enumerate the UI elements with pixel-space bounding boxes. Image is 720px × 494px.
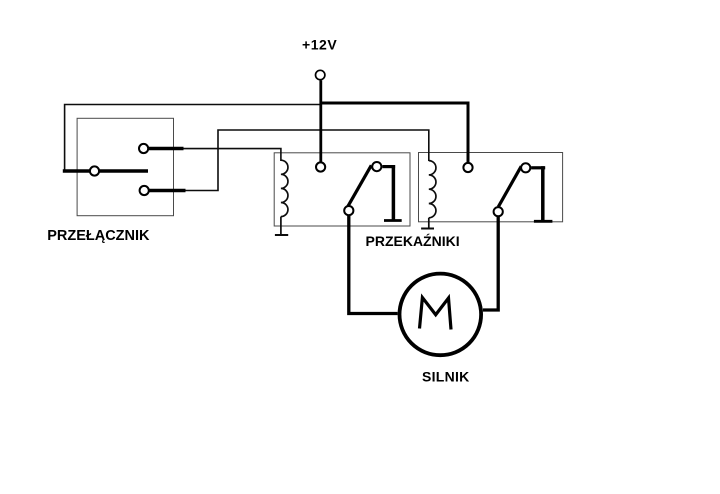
wire relay1 armature to motor — [349, 215, 398, 314]
wire coil L1 to ground — [280, 217, 282, 235]
relay1 armature pivot — [344, 206, 353, 215]
switch bottom terminal — [140, 186, 149, 195]
relay1 NC contact link — [382, 165, 395, 168]
ground under coil L2 — [421, 228, 434, 230]
+12V supply wire down to relay1 terminal — [319, 80, 322, 162]
relay2 contact ground — [534, 220, 553, 223]
+12V rail to relay2 terminal — [321, 103, 468, 163]
relay1 contact ground — [384, 219, 402, 222]
ground under coil L1 — [275, 234, 288, 236]
switch box PRZELACZNIK — [77, 118, 173, 215]
relay1 coil terminal — [316, 162, 325, 171]
motor circle — [400, 274, 482, 356]
coil L1 — [281, 160, 288, 216]
relay1 armature — [348, 165, 371, 206]
+12V terminal — [316, 70, 325, 79]
switch bottom contact bar — [149, 189, 186, 192]
relay2 NC contact link — [531, 166, 545, 169]
switch middle contact bar — [63, 169, 148, 172]
switch middle terminal — [90, 166, 99, 175]
svg-text:PRZEKAŹNIKI: PRZEKAŹNIKI — [366, 233, 460, 249]
wire from switch middle terminal up and right to +12V rail — [65, 105, 321, 172]
relay2 armature — [498, 166, 521, 207]
relay1 NC contact — [372, 162, 381, 171]
coil L2 — [429, 161, 436, 218]
wire from switch top terminal to relay1 coil — [184, 149, 281, 161]
relay2 coil terminal — [463, 163, 472, 172]
motor M symbol — [420, 298, 452, 330]
relay 2 box — [419, 153, 563, 222]
relay2 NC contact — [521, 163, 530, 172]
svg-text:+12V: +12V — [302, 37, 337, 53]
switch top contact bar — [148, 147, 184, 150]
wire from switch bottom terminal to relay2 coil — [186, 130, 429, 191]
relay2 armature pivot — [494, 207, 503, 216]
switch top terminal — [139, 144, 148, 153]
svg-text:PRZEŁĄCZNIK: PRZEŁĄCZNIK — [47, 228, 150, 244]
relay 1 box — [274, 153, 410, 226]
wire relay2 armature to motor — [483, 216, 498, 310]
wire coil L2 to ground — [428, 218, 430, 229]
svg-text:SILNIK: SILNIK — [422, 369, 470, 385]
